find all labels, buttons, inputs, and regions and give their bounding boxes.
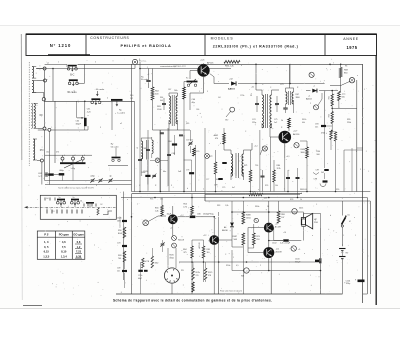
terminal top right 1 <box>309 72 314 77</box>
terminal circle mid right <box>205 154 210 159</box>
junction circle e <box>40 159 43 162</box>
svg-text:B042: B042 <box>118 233 122 235</box>
svg-text:2,2k +0,5µF: 2,2k +0,5µF <box>280 243 291 245</box>
svg-text:C79: C79 <box>222 187 225 189</box>
mid bus wire D <box>205 200 370 202</box>
svg-text:3: 3 <box>100 127 101 129</box>
trimmer small AF <box>160 240 164 252</box>
svg-text:1: 1 <box>233 257 234 259</box>
svg-text:40n: 40n <box>163 171 166 173</box>
svg-text:R92: R92 <box>328 114 330 117</box>
svg-text:AF115: AF115 <box>207 61 214 64</box>
trimmer CT1 <box>90 176 95 183</box>
svg-text:1: 1 <box>355 235 356 237</box>
svg-text:50: 50 <box>250 95 252 97</box>
preamp box line <box>132 193 303 195</box>
osc ecap C63b <box>76 117 87 126</box>
svg-text:220k: 220k <box>347 122 351 124</box>
switch bar S2 <box>71 200 80 205</box>
svg-text:R67b: R67b <box>302 119 306 121</box>
svg-text:R60: R60 <box>130 95 133 97</box>
resistor R75 <box>205 192 300 201</box>
svg-text:C.-cadre: C.-cadre <box>117 112 126 115</box>
svg-text:218: 218 <box>256 239 259 241</box>
svg-text:C78: C78 <box>214 185 217 187</box>
svg-text:1975: 1975 <box>346 45 357 50</box>
output mid wires <box>232 201 280 294</box>
scan noise <box>26 59 375 297</box>
resistor R94 <box>300 141 308 192</box>
svg-text:C71b: C71b <box>138 275 142 277</box>
svg-text:375: 375 <box>183 252 186 254</box>
diode feed wires <box>210 74 214 84</box>
mixer vertical 1 <box>139 62 141 130</box>
svg-text:1,2: 1,2 <box>77 245 81 249</box>
svg-text:C60: C60 <box>76 121 79 123</box>
alignment table text <box>43 233 84 259</box>
alignment table frame <box>37 231 85 259</box>
svg-text:10k: 10k <box>160 199 163 201</box>
svg-text:C73b: C73b <box>240 95 244 97</box>
resistor R93 <box>321 130 332 150</box>
svg-text:R6: R6 <box>345 66 347 68</box>
left vertical wire 1 <box>44 70 46 127</box>
svg-text:AC188: AC188 <box>276 251 283 254</box>
svg-text:904: 904 <box>241 276 244 278</box>
cap Ru <box>141 77 151 82</box>
svg-text:R71: R71 <box>244 165 247 167</box>
left vertical wire 5 <box>41 162 43 185</box>
resistor R90 <box>338 92 347 101</box>
C95 labels <box>317 151 320 156</box>
C97 cap <box>313 169 329 175</box>
cap C93 <box>315 124 332 129</box>
svg-text:60 cadre: 60 cadre <box>96 88 105 91</box>
svg-text:C73: C73 <box>280 84 283 86</box>
TR2 wires <box>256 90 279 92</box>
svg-text:40n: 40n <box>216 179 219 181</box>
small caps row mid-left <box>138 148 175 161</box>
switch bar S1 <box>57 200 66 205</box>
svg-text:R90b: R90b <box>226 265 230 267</box>
transistor T1 <box>197 64 209 76</box>
right column verticals <box>325 126 352 192</box>
osc trimmer C6 <box>152 174 156 179</box>
svg-text:R95: R95 <box>347 119 350 121</box>
vert wire x290 <box>289 64 291 84</box>
svg-text:R034: R034 <box>301 149 306 151</box>
resistor R62 <box>151 87 160 100</box>
osc cap C2 <box>179 135 183 136</box>
speaker wires <box>303 213 320 228</box>
driver wires <box>192 240 204 294</box>
antenna terminal <box>132 59 146 68</box>
svg-text:C74: C74 <box>252 119 255 121</box>
svg-text:1k5: 1k5 <box>207 252 210 254</box>
mid extra verticals <box>141 128 205 201</box>
R57 resistor <box>183 194 193 217</box>
svg-text:Pour une mise en œuvre: Pour une mise en œuvre <box>220 291 243 293</box>
svg-text:+9: +9 <box>298 249 300 251</box>
R87 resistor <box>232 233 244 245</box>
svg-text:40k: 40k <box>302 122 305 124</box>
svg-text:40µ7: 40µ7 <box>138 278 142 280</box>
mid stub y165 <box>108 164 128 166</box>
osc zigzag R <box>193 148 200 156</box>
svg-text:1a: 1a <box>59 197 61 199</box>
R86 resistor <box>277 201 284 223</box>
svg-text:105Ω: 105Ω <box>246 217 251 219</box>
driver T4 labels <box>198 235 207 249</box>
svg-text:GO gam: GO gam <box>73 233 84 237</box>
osc vertical x763 <box>75 101 77 118</box>
transistor T1 label <box>200 59 214 64</box>
svg-text:B-C: B-C <box>70 74 74 77</box>
svg-text:1, 3: 1, 3 <box>44 240 49 244</box>
R85b chain <box>204 262 212 282</box>
R88 resistor <box>242 201 251 224</box>
svg-text:Tout le clavier est au repos,: Tout le clavier est au repos, touche GO-… <box>58 186 95 189</box>
terminal circle AF <box>143 216 166 226</box>
svg-text:1k: 1k <box>300 199 302 201</box>
T2 leads <box>270 128 289 158</box>
svg-text:C104: C104 <box>346 280 351 282</box>
svg-text:0, 5: 0, 5 <box>44 245 49 249</box>
svg-text:+0: +0 <box>245 271 247 273</box>
osc bar CV4 <box>111 100 126 115</box>
svg-text:PHILIPS et RADIOLA: PHILIPS et RADIOLA <box>120 44 171 48</box>
DIN leads <box>168 248 176 294</box>
T1 leads <box>190 64 204 93</box>
det labels <box>244 165 281 170</box>
svg-text:R088: R088 <box>246 215 251 217</box>
svg-text:12n: 12n <box>315 126 318 128</box>
IF transformer TR2 <box>262 92 272 128</box>
svg-text:C64: C64 <box>168 141 171 143</box>
svg-text:a1: a1 <box>47 63 49 65</box>
commutateur label <box>160 65 186 68</box>
svg-text:R99: R99 <box>336 189 339 191</box>
svg-text:355Ω: 355Ω <box>169 257 174 259</box>
osc bar CV5 <box>184 79 198 87</box>
svg-text:6,8: 6,8 <box>77 240 81 244</box>
svg-text:7: 7 <box>116 189 117 191</box>
svg-text:+1,2: +1,2 <box>180 215 184 217</box>
svg-text:R65: R65 <box>186 123 189 125</box>
C98 cap <box>314 179 328 187</box>
svg-text:900: 900 <box>317 154 320 156</box>
top bus wire <box>135 63 363 65</box>
transistor T3 labels <box>161 211 172 216</box>
svg-text:c: c <box>240 156 241 158</box>
T2 junction wires <box>260 130 285 192</box>
svg-text:3000: 3000 <box>296 97 300 99</box>
diode D1 AA119 <box>214 79 325 91</box>
svg-text:a: a <box>127 199 128 201</box>
junction circle d <box>43 127 46 130</box>
svg-text:C?3: C?3 <box>186 170 189 172</box>
svg-text:4,6: 4,6 <box>62 240 66 244</box>
T5 leads <box>248 201 269 248</box>
misc tiny annotations <box>46 59 365 281</box>
svg-text:12n: 12n <box>117 270 120 272</box>
svg-text:a2: a2 <box>120 123 122 125</box>
R86b chain <box>192 262 200 292</box>
wire osc bus <box>44 100 135 102</box>
svg-text:PO: PO <box>40 148 44 152</box>
vertical text commutateur <box>118 216 121 228</box>
ecap C64 <box>59 170 65 176</box>
GO coil L2 <box>31 104 43 129</box>
right bus wire 3 <box>369 201 371 294</box>
svg-text:R07b: R07b <box>196 272 200 274</box>
mid horiz stubs <box>141 138 191 160</box>
svg-text:a: a <box>312 235 313 237</box>
svg-text:R94: R94 <box>317 151 320 153</box>
AGC chain 1 <box>328 94 333 106</box>
cap C104 <box>346 280 365 286</box>
svg-text:470: 470 <box>196 151 199 153</box>
osc vertical x848 <box>84 101 86 131</box>
svg-text:R72: R72 <box>209 156 212 158</box>
top bus junctions <box>203 64 331 66</box>
osc trimmer C4 <box>186 140 193 146</box>
svg-text:704: 704 <box>118 258 121 260</box>
right schematic border <box>375 34 377 305</box>
bottom frame wire <box>116 293 343 295</box>
mid verticals to bus <box>140 99 184 192</box>
svg-text:160n: 160n <box>117 220 121 222</box>
svg-text:a: a <box>241 65 242 67</box>
header cell annee <box>343 37 359 50</box>
svg-text:4n7: 4n7 <box>232 187 235 189</box>
svg-text:C66b: C66b <box>141 172 145 174</box>
osc cap C1 <box>160 133 164 134</box>
svg-text:CONSTRUCTEURS: CONSTRUCTEURS <box>90 36 129 40</box>
switch bar S4 wires <box>47 203 75 210</box>
mixer wires 2 <box>149 69 153 131</box>
left vertical wire 3 <box>52 68 55 163</box>
svg-text:R85: R85 <box>207 249 210 251</box>
osc coil L4 <box>137 138 148 160</box>
AF left vertical <box>124 192 132 295</box>
svg-text:AA112: AA112 <box>306 97 313 100</box>
bottom verticals right <box>219 217 272 294</box>
svg-text:+0,2: +0,2 <box>254 146 258 148</box>
svg-text:N° 1210: N° 1210 <box>50 43 71 48</box>
header cell no <box>50 43 71 48</box>
svg-text:50Ω: 50Ω <box>233 239 237 241</box>
svg-text:1,3,4: 1,3,4 <box>61 254 67 258</box>
pour une note <box>220 291 243 293</box>
svg-text:R84: R84 <box>183 249 186 251</box>
svg-text:1: 1 <box>199 91 200 93</box>
svg-text:7,5: 7,5 <box>62 245 66 249</box>
driver junction circles <box>172 236 184 248</box>
mid small labels <box>143 171 181 173</box>
TR1 cap <box>162 98 166 110</box>
svg-text:C66: C66 <box>196 109 199 111</box>
svg-text:R76: R76 <box>265 185 268 187</box>
svg-text:+32: +32 <box>251 87 254 89</box>
AF bus y262 <box>179 261 321 263</box>
resistor R69 <box>214 128 226 144</box>
right area labels <box>347 119 351 124</box>
cap C62 <box>38 172 47 178</box>
terminal GO <box>225 107 235 121</box>
bar Ry cadre <box>111 144 121 162</box>
svg-text:R98: R98 <box>281 214 284 216</box>
svg-text:197k: 197k <box>277 168 281 170</box>
svg-text:b: b <box>220 143 221 145</box>
svg-text:0,5: 0,5 <box>236 265 239 267</box>
power switch <box>341 201 350 246</box>
trimmer CT2 <box>98 178 102 183</box>
svg-text:C77: C77 <box>206 179 209 181</box>
junction circle f <box>48 128 51 184</box>
svg-text:125p: 125p <box>252 122 256 124</box>
transistor T6 <box>263 247 274 258</box>
svg-text:2: 2 <box>310 103 311 105</box>
TR3 labels <box>280 84 300 99</box>
svg-text:Ry: Ry <box>111 144 113 146</box>
resistor R66 <box>224 60 240 67</box>
C100 cap <box>295 258 321 263</box>
tuning cap CV3 <box>91 88 105 105</box>
svg-text:270: 270 <box>196 275 199 277</box>
trimmer CT3 <box>108 176 112 183</box>
svg-text:56k: 56k <box>342 96 345 98</box>
tuning gang bar <box>60 160 86 170</box>
svg-text:22RL333/00 (Ph.) et RA3337/00: 22RL333/00 (Ph.) et RA3337/00 (Rad.) <box>213 45 299 49</box>
header cell constructeurs <box>90 36 171 48</box>
junction circle b <box>44 79 47 82</box>
svg-text:1,2k: 1,2k <box>264 197 268 199</box>
out bottom wires <box>219 212 321 294</box>
junction circle c <box>32 93 45 101</box>
svg-text:R78: R78 <box>290 199 293 201</box>
AF ecaps bottom <box>138 262 148 294</box>
svg-text:L5: L5 <box>137 147 139 149</box>
det left column <box>209 150 227 192</box>
TR4 top wires <box>224 135 252 150</box>
det right resistors <box>249 150 275 192</box>
svg-text:C09: C09 <box>117 268 120 270</box>
svg-text:C67: C67 <box>168 89 171 91</box>
svg-text:R80: R80 <box>277 165 280 167</box>
svg-text:AC126: AC126 <box>198 241 201 248</box>
AGC bottom <box>331 132 337 192</box>
svg-text:C61: C61 <box>87 109 90 111</box>
svg-text:2: 2 <box>260 265 261 267</box>
antenna core dashed <box>28 62 30 166</box>
ecap C63 <box>45 173 60 175</box>
det caps small <box>286 168 300 198</box>
R85 resistor <box>202 246 210 258</box>
left vertical wire 2 <box>44 130 46 176</box>
svg-text:R58: R58 <box>118 230 121 232</box>
svg-text:C93: C93 <box>315 124 318 126</box>
fuse rect <box>280 212 305 241</box>
svg-text:1,4k: 1,4k <box>155 210 159 212</box>
svg-text:1k2: 1k2 <box>321 172 324 174</box>
T3 leads <box>170 206 173 236</box>
svg-text:470: 470 <box>56 152 59 154</box>
terminal wire diag <box>330 82 350 86</box>
svg-text:REFLEX: REFLEX <box>300 189 308 191</box>
svg-text:R081: R081 <box>169 255 173 257</box>
svg-text:940-08: 940-08 <box>178 240 184 242</box>
AGC wires <box>325 90 357 132</box>
svg-text:6: 6 <box>96 185 97 187</box>
svg-text:AC187: AC187 <box>275 226 282 229</box>
svg-text:+1: +1 <box>313 86 315 88</box>
svg-text:C102: C102 <box>272 243 277 245</box>
terminal top right 2 <box>349 78 354 83</box>
svg-text:d: d <box>356 151 357 153</box>
bus junction dots <box>131 191 337 263</box>
svg-text:25Ω: 25Ω <box>314 222 318 224</box>
svg-text:6,15: 6,15 <box>44 250 50 254</box>
svg-text:2: 2 <box>75 155 76 157</box>
svg-text:A662: A662 <box>214 134 218 137</box>
svg-text:50: 50 <box>294 211 296 213</box>
C102 cap <box>272 228 301 245</box>
svg-text:5: 5 <box>86 187 87 189</box>
transistor T2 <box>279 131 292 144</box>
svg-text:C98: C98 <box>314 179 317 181</box>
svg-text:470: 470 <box>215 138 218 140</box>
transistor T3 <box>168 214 178 224</box>
svg-text:e: e <box>304 253 305 255</box>
svg-text:C75: C75 <box>274 119 277 121</box>
svg-text:320µF: 320µF <box>295 261 301 263</box>
svg-text:1: 1 <box>58 62 59 64</box>
svg-text:1600µF/10µ: 1600µF/10µ <box>203 214 215 216</box>
svg-text:C62: C62 <box>46 152 49 154</box>
switch extra ticks <box>45 198 96 207</box>
corner wires right <box>344 148 363 150</box>
svg-text:C72 2n2: C72 2n2 <box>186 140 193 142</box>
svg-text:3000: 3000 <box>301 152 305 154</box>
svg-text:R66, 12k: R66, 12k <box>225 66 235 68</box>
mid bus wire C <box>121 197 367 199</box>
svg-text:C67b: C67b <box>117 218 122 220</box>
wire CV2 right <box>78 64 136 83</box>
TR2 caps <box>255 96 279 112</box>
AGC chain 2 <box>328 112 333 124</box>
osc ecap C5 <box>141 172 151 177</box>
svg-text:+16: +16 <box>283 232 286 234</box>
T4 leads <box>214 217 232 294</box>
svg-text:R83: R83 <box>217 205 220 207</box>
transistor T5 labels <box>275 224 282 229</box>
vert wire x256 <box>255 64 257 90</box>
svg-text:a: a <box>88 115 89 117</box>
header table frame <box>26 34 377 56</box>
C80 label <box>197 214 215 216</box>
svg-text:a: a <box>357 75 358 77</box>
svg-text:g: g <box>355 279 356 281</box>
tiny caption under gang <box>58 186 95 189</box>
terminal D2 circle <box>314 93 323 110</box>
right bus wire 2 <box>363 198 368 295</box>
terminal circles near T2 <box>262 143 299 152</box>
svg-text:Schéma de l'appareil avec le d: Schéma de l'appareil avec le détail de c… <box>113 299 272 303</box>
antenna coil L1a <box>32 67 36 79</box>
svg-text:1: 1 <box>364 89 365 91</box>
caption schema <box>113 299 272 303</box>
